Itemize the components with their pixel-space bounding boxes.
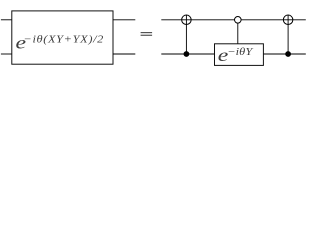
gate U2 box e^{-i&#952;Y} (215, 44, 264, 66)
wire top-left stub (1, 19, 12, 21)
svg-text:−iθY: −iθY (227, 46, 254, 58)
equals sign (141, 32, 153, 35)
open control circle (235, 17, 242, 24)
wire bottom-left stub (1, 53, 12, 55)
CNOT1 target circle (182, 15, 192, 25)
wire bottom RHS right segment (263, 53, 305, 55)
gate U1 box e^{-i&#952;(XY+YX)/2} (12, 11, 113, 64)
control line open control to U2 (237, 20, 239, 44)
svg-text:−iθ(XY+YX)/2: −iθ(XY+YX)/2 (24, 34, 104, 45)
wire top stub right of U1 (113, 19, 135, 21)
wire bottom stub right of U1 (113, 53, 135, 55)
CNOT2 control dot (285, 51, 291, 57)
wire top RHS (161, 19, 305, 21)
CNOT2 vertical line (287, 15, 289, 54)
CNOT2 target circle (283, 15, 293, 25)
wire bottom RHS left segment (161, 53, 214, 55)
CNOT1 control dot (184, 51, 190, 57)
CNOT1 vertical line (185, 15, 187, 54)
